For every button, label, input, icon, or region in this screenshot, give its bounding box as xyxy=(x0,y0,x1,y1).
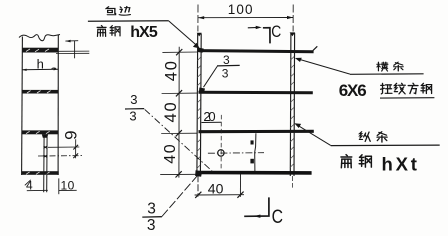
dimension line for 9 xyxy=(75,139,77,158)
bottom C mark arrow xyxy=(254,215,261,218)
label biangang hXt xyxy=(341,155,352,168)
baobian leader xyxy=(169,21,198,46)
svg-text:3: 3 xyxy=(222,66,229,80)
dimension line for 20 xyxy=(202,121,222,123)
extension line row3 xyxy=(161,132,197,134)
extension line row2 xyxy=(162,92,198,94)
cross bar right (vertical double line) xyxy=(290,33,294,176)
top C mark corner xyxy=(263,28,270,44)
label biangang hX5 xyxy=(97,26,106,37)
left bar lower extension (dim ext line) xyxy=(197,175,199,196)
section strip right edge line xyxy=(57,35,59,176)
extension line row4 xyxy=(160,173,196,175)
tick at left of 4 dim xyxy=(25,180,31,186)
svg-text:40: 40 xyxy=(162,143,179,164)
tick marks on left chain xyxy=(176,49,183,178)
svg-text:40: 40 xyxy=(208,181,224,197)
middle longitudinal bar with break jog xyxy=(255,133,256,171)
weld blob at bar4 corner xyxy=(195,170,202,177)
flat bar row 1 xyxy=(198,49,313,53)
zongtiao underline xyxy=(331,144,440,147)
dash-dot centerline through flat bar xyxy=(38,155,83,157)
right bar top blob xyxy=(290,32,296,36)
cross bar section band 1 xyxy=(22,48,58,53)
extension line left of 100 dim xyxy=(197,5,199,32)
left bar top blob xyxy=(197,33,202,37)
svg-text:3: 3 xyxy=(147,217,156,234)
weld 3/3 bottom: fraction line xyxy=(142,216,162,218)
twist hatch marks in left bar xyxy=(197,57,201,168)
svg-text:hXt: hXt xyxy=(382,153,420,174)
flat bar row 4 xyxy=(198,171,311,175)
svg-text:40: 40 xyxy=(162,59,180,81)
svg-text:40: 40 xyxy=(162,101,180,123)
longitudinal bar left (vertical double line) xyxy=(197,34,201,176)
dimension line for 4 xyxy=(27,189,48,191)
bottom 40 extension line xyxy=(239,174,241,197)
svg-text:3: 3 xyxy=(223,53,230,67)
svg-text:3: 3 xyxy=(129,109,136,124)
bottom 40 dimension line xyxy=(195,194,244,196)
label baobian text xyxy=(106,7,116,15)
extension line for 10 dim xyxy=(58,178,60,194)
svg-text:9: 9 xyxy=(61,130,80,139)
row 1 end tick xyxy=(313,46,317,50)
svg-text:100: 100 xyxy=(228,2,254,17)
dash-dot line through hole xyxy=(208,152,264,155)
band1 edge lines extending right xyxy=(56,51,89,53)
weld 3/3 left: dash-dot leader to bar4 xyxy=(145,109,214,172)
bottom 40 ticks xyxy=(195,192,243,198)
svg-text:C: C xyxy=(271,23,281,41)
extension line right of 100 dim xyxy=(292,5,294,32)
label hengtiao xyxy=(377,62,388,71)
weld blob at leader tip xyxy=(198,48,204,53)
arrow right of 100 xyxy=(287,16,293,19)
label zongtiao xyxy=(359,132,370,142)
twist hatch marks in right bar xyxy=(290,57,294,168)
bottom C mark corner xyxy=(244,197,269,216)
svg-text:hX5: hX5 xyxy=(130,24,158,41)
cross bar section band 2 xyxy=(22,90,58,94)
zongtiao leader xyxy=(298,125,331,145)
left dimension chain line xyxy=(178,47,180,178)
h dimension line with arrows xyxy=(22,68,58,71)
svg-text:C: C xyxy=(272,207,283,228)
small top dimension arrow (edging thickness) xyxy=(65,40,78,42)
arrow left of 100 xyxy=(198,16,204,19)
cross bar section band 4 xyxy=(22,171,59,175)
extension line row1 xyxy=(162,51,197,53)
small top dimension tick line xyxy=(74,41,76,58)
baobian underline xyxy=(88,20,169,22)
break squiggle at strip top xyxy=(19,35,60,41)
svg-text:3: 3 xyxy=(147,200,156,217)
weld 3/3 bottom: leader xyxy=(162,175,199,217)
small weld crosses on flat bar xyxy=(44,146,48,157)
weld 3/3 left: fraction line xyxy=(125,108,144,110)
section strip left edge line xyxy=(21,37,24,176)
svg-text:6X6: 6X6 xyxy=(339,81,366,100)
longitudinal flat bar seen edge-on (double line) xyxy=(44,134,47,192)
weld mark upper on middle bar xyxy=(251,140,254,144)
weld 3/3 upper-right: fraction line xyxy=(217,64,240,67)
extension line for 9 dim xyxy=(48,146,79,148)
dimension line 100 xyxy=(198,17,293,19)
flat bar row 2 xyxy=(198,91,312,95)
weld 3/3 upper-right: leader xyxy=(204,66,218,87)
weld blob at bar2 junction xyxy=(199,88,205,94)
svg-text:3: 3 xyxy=(130,92,137,107)
weld blob at flat bar / band3 junction xyxy=(42,134,48,138)
dashed centerline of hole column xyxy=(220,115,222,169)
hengtiao underline xyxy=(350,73,424,76)
weld mark lower on middle bar xyxy=(250,159,254,164)
right bar lower extension xyxy=(291,176,293,188)
cross bar section band 3 xyxy=(22,130,59,134)
dimension line for 10 xyxy=(59,189,77,191)
niujiao underline xyxy=(380,97,434,99)
bolt hole circle xyxy=(218,150,224,156)
top C mark arrow xyxy=(248,27,257,29)
flat bar row 3 xyxy=(198,130,313,133)
tick marks for 9 dim xyxy=(73,145,78,158)
hengtiao leader xyxy=(298,59,350,74)
